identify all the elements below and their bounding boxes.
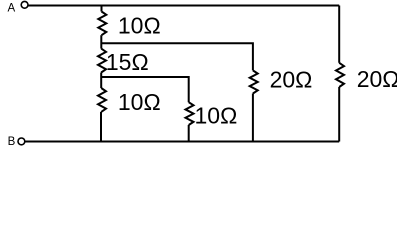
wire left column R3 to bottom rail <box>100 112 102 142</box>
svg-text:A: A <box>8 3 16 15</box>
svg-text:B: B <box>8 136 16 148</box>
wire R5 to bottom rail <box>252 94 254 142</box>
node A terminal <box>21 1 28 8</box>
svg-text:10Ω: 10Ω <box>118 89 161 115</box>
svg-text:20Ω: 20Ω <box>270 67 313 93</box>
resistor R1 10Ω top left <box>98 12 106 36</box>
resistor R3 10Ω bottom left <box>98 88 106 112</box>
wire left column node 2 to R3 <box>100 77 102 88</box>
wire right branch top rail corner down to R6 <box>338 6 340 63</box>
wire R6 to bottom rail <box>338 87 340 142</box>
resistor R6 20Ω right branch <box>336 63 344 87</box>
svg-text:10Ω: 10Ω <box>118 12 161 38</box>
wire bottom rail from B to right branch <box>25 141 339 143</box>
wire left column top segment (A rail to R1) <box>101 6 103 12</box>
wire left column between R2 and node 2 <box>100 73 102 78</box>
resistor R4 10Ω inner branch <box>186 102 194 125</box>
svg-text:20Ω: 20Ω <box>357 66 397 92</box>
resistor R5 20Ω middle branch <box>250 70 258 93</box>
node 1 wire going right to 20Ω branch <box>101 43 253 70</box>
node 2 wire going right to inner 10Ω branch <box>101 77 189 102</box>
wire top rail from A to right branch <box>28 5 339 7</box>
wire R4 to bottom rail <box>188 125 190 142</box>
svg-text:15Ω: 15Ω <box>106 49 149 75</box>
node B terminal <box>18 138 25 145</box>
svg-text:10Ω: 10Ω <box>195 102 238 128</box>
wire left column between R1 and R2 through node 1 <box>100 35 102 48</box>
resistor R2 15Ω <box>98 49 106 73</box>
